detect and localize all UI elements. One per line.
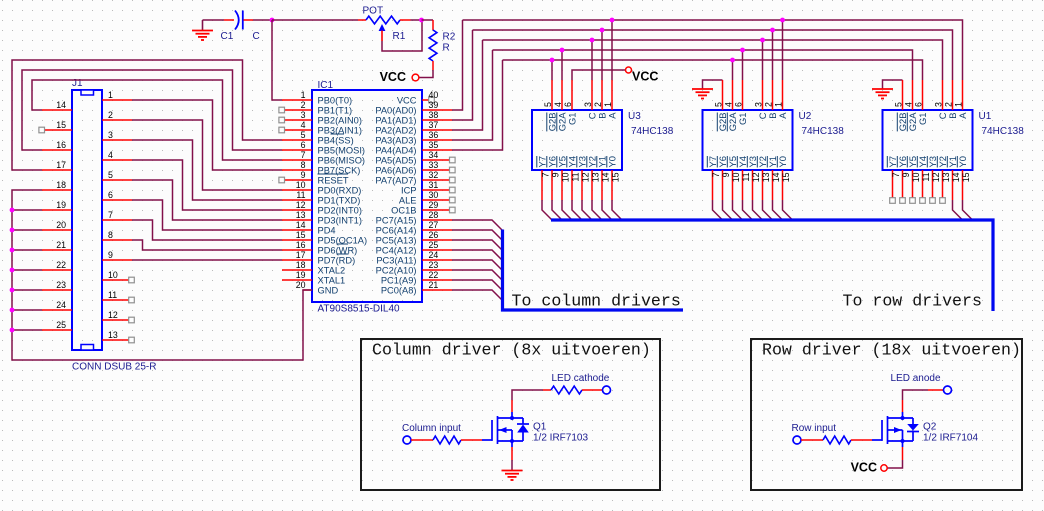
IC1 pin 27 PC6(A14)	[422, 229, 452, 231]
IC1 pin 39 PA0(AD0)	[422, 109, 452, 111]
resistor LED cathode	[543, 389, 551, 391]
svg-text:12: 12	[296, 200, 306, 210]
capacitor C1	[224, 19, 234, 21]
wire J1.5 to IC1.13	[132, 180, 282, 220]
svg-text:3: 3	[583, 102, 593, 107]
svg-text:38: 38	[429, 110, 439, 120]
J1 pin 23	[42, 289, 72, 291]
IC1 pin 10 PD0(RXD)	[282, 189, 312, 191]
power VCC terminal	[412, 74, 419, 81]
wire J1.16 to IC1.6	[22, 70, 282, 150]
U3 pin 14 Y1	[601, 170, 603, 200]
terminal LED anode	[944, 386, 952, 394]
terminal Column input	[403, 436, 411, 444]
IC1 pin 29 OC1B	[422, 209, 452, 211]
unconnected U1 output	[910, 198, 916, 204]
wire U1 output to row bus	[953, 200, 963, 220]
svg-text:15: 15	[296, 230, 306, 240]
J1 pin 25	[42, 329, 72, 331]
svg-text:1: 1	[954, 102, 964, 107]
IC1 pin 4 PB3(AIN1)	[282, 129, 312, 131]
resistor R2	[432, 20, 434, 30]
svg-text:15: 15	[781, 172, 791, 182]
svg-text:PB1(T1): PB1(T1)	[318, 106, 353, 116]
U2 pin 2 B	[772, 80, 774, 110]
svg-text:6: 6	[563, 102, 573, 107]
U1 pin 6 G1	[922, 80, 924, 110]
U1 pin 15 Y0	[962, 170, 964, 200]
svg-text:6: 6	[301, 140, 306, 150]
svg-text:16: 16	[56, 140, 66, 150]
svg-text:7: 7	[301, 150, 306, 160]
IC1 pin 34 PA5(AD5)	[422, 159, 452, 161]
U1 pin 3 C	[942, 80, 944, 110]
IC1 pin 12 PD2(INT0)	[282, 209, 312, 211]
wire 74HC138 output to row bus	[542, 200, 552, 220]
svg-text:C1: C1	[221, 31, 234, 42]
junction	[780, 18, 785, 23]
svg-text:12: 12	[108, 310, 118, 320]
terminal Row input	[793, 436, 801, 444]
wire 74HC138 output to row bus	[582, 200, 592, 220]
U3 pin 9 Y6	[551, 170, 553, 200]
J1 pin 20	[42, 229, 72, 231]
wire IC1 pin 37 to net row y=40	[452, 40, 483, 130]
ground	[202, 20, 204, 30]
svg-text:XTAL1: XTAL1	[318, 276, 346, 286]
svg-text:To row drivers: To row drivers	[843, 292, 982, 311]
svg-text:PC0(A8): PC0(A8)	[381, 286, 417, 296]
J1 pin 1	[102, 99, 132, 101]
svg-text:40: 40	[429, 90, 439, 100]
svg-text:7: 7	[711, 172, 721, 177]
svg-text:5: 5	[894, 102, 904, 107]
IC1 pin 1 PB0(T0)	[282, 99, 312, 101]
bus to column drivers	[503, 230, 684, 311]
IC1 pin 30 ALE	[422, 199, 452, 201]
J1 pin 10	[102, 279, 132, 281]
U1 pin 4 G2A	[912, 80, 914, 110]
svg-text:XTAL2: XTAL2	[318, 266, 346, 276]
svg-text:Y0: Y0	[957, 156, 968, 167]
U2 pin 11 Y4	[742, 170, 744, 200]
svg-text:9: 9	[301, 170, 306, 180]
svg-text:30: 30	[429, 190, 439, 200]
svg-text:U3: U3	[628, 111, 641, 122]
svg-text:4: 4	[301, 120, 306, 130]
svg-text:15: 15	[961, 172, 971, 182]
U1 pin 13 Y2	[942, 170, 944, 200]
unconnected U1 output	[940, 198, 946, 204]
svg-text:RESET: RESET	[318, 176, 349, 186]
J1 pin 17	[42, 169, 72, 171]
U2 pin 6 G1	[742, 80, 744, 110]
svg-text:PD0(RXD): PD0(RXD)	[318, 186, 362, 196]
U3 pin 12 Y3	[581, 170, 583, 200]
svg-text:29: 29	[429, 200, 439, 210]
svg-text:39: 39	[429, 100, 439, 110]
IC1 pin 38 PA1(AD1)	[422, 119, 452, 121]
ground	[502, 470, 523, 472]
svg-text:28: 28	[429, 210, 439, 220]
svg-text:12: 12	[580, 172, 590, 182]
IC1 pin 8 PB7(SCK)	[282, 169, 312, 171]
IC1 pin 15 PD5(OC1A)	[282, 239, 312, 241]
wire IC1 pin 38 to net row y=30	[452, 30, 473, 120]
svg-text:74HC138: 74HC138	[802, 126, 845, 137]
power VCC terminal	[626, 67, 632, 73]
svg-text:23: 23	[429, 260, 439, 270]
svg-text:36: 36	[429, 130, 439, 140]
svg-text:1: 1	[108, 90, 113, 100]
svg-text:8: 8	[301, 160, 306, 170]
U2 pin 7 Y7	[712, 170, 714, 200]
net wire A row	[463, 20, 963, 80]
svg-text:14: 14	[296, 220, 306, 230]
U1 pin 9 Y6	[902, 170, 904, 200]
U2 pin 1 A	[782, 80, 784, 110]
junction node	[270, 18, 275, 23]
svg-text:6: 6	[108, 190, 113, 200]
U3 pin 11 Y4	[571, 170, 573, 200]
U1 pin 7 Y7	[892, 170, 894, 200]
svg-text:VCC: VCC	[851, 461, 877, 475]
wire J1.2 to IC1.10	[132, 120, 282, 190]
svg-text:7: 7	[891, 172, 901, 177]
svg-text:1/2 IRF7104: 1/2 IRF7104	[923, 433, 978, 444]
svg-text:11: 11	[108, 290, 117, 300]
IC1 pin 22 PC1(A9)	[422, 279, 452, 281]
svg-text:PC7(A15): PC7(A15)	[376, 216, 417, 226]
wire J1.4 to IC1.12	[132, 160, 282, 210]
J1 pin 7	[102, 219, 132, 221]
wire 74HC138 output to row bus	[743, 200, 753, 220]
wire 74HC138 output to row bus	[713, 200, 723, 220]
IC1 pin 11 PD1(TXD)	[282, 199, 312, 201]
wire 74HC138 output to row bus	[562, 200, 572, 220]
IC1 pin 23 PC2(A10)	[422, 269, 452, 271]
svg-text:7: 7	[540, 172, 550, 177]
wire J1.23 to bus	[12, 289, 42, 291]
J1 pin 15	[42, 129, 72, 131]
svg-text:13: 13	[761, 172, 771, 182]
svg-text:12: 12	[751, 172, 761, 182]
svg-text:6: 6	[914, 102, 924, 107]
svg-text:PC5(A13): PC5(A13)	[376, 236, 417, 246]
junction	[10, 308, 15, 313]
U3 pin 5 G2B	[551, 80, 553, 110]
svg-text:PB0(T0): PB0(T0)	[318, 96, 353, 106]
svg-text:13: 13	[296, 210, 306, 220]
svg-text:PB4(SS): PB4(SS)	[318, 136, 354, 146]
IC1 pin 3 PB2(AIN0)	[282, 119, 312, 121]
junction	[10, 328, 15, 333]
J1 pin 19	[42, 209, 72, 211]
svg-text:10: 10	[296, 180, 306, 190]
svg-text:4: 4	[904, 102, 914, 107]
wire drop to U3	[561, 50, 563, 80]
svg-text:14: 14	[600, 172, 610, 182]
wire 74HC138 output to row bus	[602, 200, 612, 220]
wire J1.8 to IC1.16	[132, 240, 282, 250]
svg-text:U1: U1	[979, 111, 992, 122]
wire drop to U2	[732, 60, 734, 80]
ground for U1 G2B	[883, 80, 903, 89]
svg-text:CONN DSUB 25-R: CONN DSUB 25-R	[72, 362, 156, 373]
wire drop to U2	[782, 20, 784, 80]
U3 pin 1 A	[611, 80, 613, 110]
net wire G1 row	[493, 50, 913, 80]
U2 pin 5 G2B	[722, 80, 724, 110]
svg-text:OC1B: OC1B	[391, 206, 416, 216]
svg-text:14: 14	[951, 172, 961, 182]
J1 pin 18	[42, 189, 72, 191]
wire IC1 pin 36 to net row y=50	[452, 50, 493, 140]
svg-text:R1: R1	[393, 31, 406, 42]
svg-text:13: 13	[941, 172, 951, 182]
IC1 pin 36 PA3(AD3)	[422, 139, 452, 141]
svg-text:1/2 IRF7103: 1/2 IRF7103	[533, 433, 588, 444]
svg-text:PA3(AD3): PA3(AD3)	[375, 136, 416, 146]
svg-text:13: 13	[590, 172, 600, 182]
resistor column input	[411, 439, 433, 441]
wire IC1 pin 25 to column bus	[452, 250, 503, 261]
wire 74HC138 output to row bus	[733, 200, 743, 220]
svg-text:R2: R2	[443, 32, 456, 43]
svg-text:10: 10	[108, 270, 118, 280]
wire 74HC138 output to row bus	[572, 200, 582, 220]
IC1 pin 6 PB5(MOSI)	[282, 149, 312, 151]
U3 pin 4 G2A	[561, 80, 563, 110]
wire R2 to VCC	[420, 70, 434, 78]
svg-text:G1: G1	[737, 113, 748, 126]
wire drop to U3	[551, 60, 553, 80]
IC1 pin 31 ICP	[422, 189, 452, 191]
svg-text:Y0: Y0	[606, 156, 617, 167]
svg-text:20: 20	[296, 280, 306, 290]
svg-text:1: 1	[774, 102, 784, 107]
J1 pin 21	[42, 249, 72, 251]
wire J1.22 to bus	[12, 269, 42, 271]
U2 pin 9 Y6	[722, 170, 724, 200]
IC1 pin 9 RESET	[282, 179, 312, 181]
IC1 pin 16 PD6(WR)	[282, 249, 312, 251]
U2 pin 13 Y2	[762, 170, 764, 200]
U1 pin 11 Y4	[922, 170, 924, 200]
net wire B row	[473, 30, 953, 80]
wire 74HC138 output to row bus	[612, 200, 622, 220]
wire IC1 pin 22 to column bus	[452, 280, 503, 291]
IC1 pin 26 PC5(A13)	[422, 239, 452, 241]
IC1 pin 24 PC3(A11)	[422, 259, 452, 261]
svg-text:To column drivers: To column drivers	[512, 292, 681, 311]
U1 pin 14 Y1	[952, 170, 954, 200]
wire ground to C1	[203, 19, 225, 21]
svg-text:16: 16	[296, 240, 306, 250]
svg-text:5: 5	[301, 130, 306, 140]
svg-text:32: 32	[429, 170, 439, 180]
net wire C row	[483, 40, 943, 80]
junction POT R2	[419, 18, 424, 23]
U2 pin 15 Y0	[782, 170, 784, 200]
wire J1.19 to bus	[12, 209, 42, 211]
svg-text:34: 34	[429, 150, 439, 160]
IC1 pin 13 PD3(INT1)	[282, 219, 312, 221]
svg-text:PB6(MISO): PB6(MISO)	[318, 156, 366, 166]
wire J1.14 to IC1.7	[32, 80, 282, 160]
svg-text:Column input: Column input	[402, 423, 461, 434]
unconnected U1 output	[900, 198, 906, 204]
wire J1.21 to bus	[12, 249, 42, 251]
svg-text:22: 22	[56, 260, 66, 270]
junction	[560, 48, 565, 53]
wire J1.9 to IC1.17	[132, 259, 282, 261]
wire drop to U2	[762, 40, 764, 80]
svg-text:PD3(INT1): PD3(INT1)	[318, 216, 362, 226]
svg-text:21: 21	[56, 240, 66, 250]
U3 pin 7 Y7	[541, 170, 543, 200]
body diode Q2	[912, 418, 914, 424]
J1 pin 6	[102, 199, 132, 201]
wire J1.1 to IC1.8	[132, 100, 282, 170]
svg-text:ICP: ICP	[401, 186, 417, 196]
svg-text:PA0(AD0): PA0(AD0)	[375, 106, 416, 116]
svg-text:GND: GND	[318, 286, 339, 296]
svg-text:AT90S8515-DIL40: AT90S8515-DIL40	[318, 304, 401, 315]
wire 74HC138 output to row bus	[592, 200, 602, 220]
svg-text:12: 12	[931, 172, 941, 182]
J1 pin 9	[102, 259, 132, 261]
wire R1 wiper loop	[382, 21, 422, 51]
IC1 pin 2 PB1(T1)	[282, 109, 312, 111]
svg-text:PB2(AIN0): PB2(AIN0)	[318, 116, 362, 126]
svg-text:7: 7	[108, 210, 113, 220]
svg-text:PD2(INT0): PD2(INT0)	[318, 206, 362, 216]
wire drop to U3	[611, 20, 613, 80]
row driver detail box	[751, 339, 1022, 490]
wire J1.7 to IC1.15	[132, 220, 282, 240]
unconnected U1 output	[920, 198, 926, 204]
ground for U2 G2B	[703, 80, 723, 89]
U3 pin 2 B	[601, 80, 603, 110]
junction	[10, 248, 15, 253]
junction	[10, 268, 15, 273]
IC1 pin 14 PD4	[282, 229, 312, 231]
svg-text:PA1(AD1): PA1(AD1)	[375, 116, 416, 126]
svg-text:11: 11	[296, 190, 305, 200]
junction	[730, 58, 735, 63]
svg-text:25: 25	[429, 240, 439, 250]
wire J1.25 to bus	[12, 329, 42, 331]
svg-text:IC1: IC1	[318, 80, 334, 91]
wire drop to U2	[742, 50, 744, 80]
wire IC1 pin 28 to column bus	[452, 220, 503, 231]
svg-text:A: A	[606, 112, 617, 119]
svg-text:37: 37	[429, 120, 439, 130]
svg-text:LED anode: LED anode	[891, 373, 941, 384]
wire IC1 pin 27 to column bus	[452, 230, 503, 241]
wire U1 output to row bus	[963, 200, 973, 220]
wire IC1 pin 21 to column bus	[452, 290, 503, 301]
svg-text:PD4: PD4	[318, 226, 336, 236]
svg-text:Column driver (8x uitvoeren): Column driver (8x uitvoeren)	[372, 340, 651, 359]
svg-text:26: 26	[429, 230, 439, 240]
svg-text:11: 11	[921, 172, 931, 181]
junction	[590, 38, 595, 43]
svg-text:PD7(RD): PD7(RD)	[318, 256, 356, 266]
IC1 pin 5 PB4(SS)	[282, 139, 312, 141]
svg-text:21: 21	[429, 280, 439, 290]
svg-text:VCC: VCC	[632, 70, 658, 84]
svg-text:PC2(A10): PC2(A10)	[376, 266, 417, 276]
svg-text:3: 3	[301, 110, 306, 120]
svg-text:G1: G1	[917, 113, 928, 126]
wire U3 G1 to VCC	[572, 70, 626, 80]
svg-text:20: 20	[56, 220, 66, 230]
svg-text:14: 14	[56, 100, 66, 110]
J1 pin 2	[102, 119, 132, 121]
wire J1.24 to bus	[12, 309, 42, 311]
potentiometer R1 POT	[358, 19, 366, 21]
svg-text:4: 4	[724, 102, 734, 107]
wire drop to U3	[601, 30, 603, 80]
wire IC1 pin 39 to net row y=20	[452, 20, 463, 110]
svg-text:9: 9	[901, 172, 911, 177]
svg-text:35: 35	[429, 140, 439, 150]
bus to row drivers	[551, 220, 993, 311]
resistor row input	[801, 439, 823, 441]
svg-text:VCC: VCC	[380, 70, 406, 84]
IC U3 74HC138 body	[532, 110, 622, 170]
wire 74HC138 output to row bus	[552, 200, 562, 220]
J1 pin 8	[102, 239, 132, 241]
wire Q2 source to VCC	[902, 441, 904, 447]
J1 pin 14	[42, 109, 72, 111]
J1 pin 3	[102, 139, 132, 141]
IC1 pin 17 PD7(RD)	[282, 259, 312, 261]
svg-text:4: 4	[553, 102, 563, 107]
svg-text:14: 14	[771, 172, 781, 182]
svg-text:1: 1	[603, 102, 613, 107]
column driver detail box	[361, 339, 660, 490]
U1 pin 5 G2B	[902, 80, 904, 110]
net wire G2A row	[503, 60, 923, 80]
svg-text:POT: POT	[363, 6, 384, 17]
power VCC terminal	[881, 465, 887, 471]
IC1 pin 37 PA2(AD2)	[422, 129, 452, 131]
svg-text:3: 3	[934, 102, 944, 107]
wire 74HC138 output to row bus	[723, 200, 733, 220]
svg-text:10: 10	[911, 172, 921, 182]
svg-text:A: A	[777, 112, 788, 119]
wire 74HC138 output to row bus	[763, 200, 773, 220]
svg-text:G1: G1	[566, 113, 577, 126]
unconnected U1 output	[930, 198, 936, 204]
wire J1.6 to IC1.14	[132, 200, 282, 230]
J1 pin 5	[102, 179, 132, 181]
terminal LED cathode	[603, 386, 611, 394]
wire Q1 source to ground	[511, 441, 513, 447]
IC1 pin 32 PA7(AD7)	[422, 179, 452, 181]
svg-text:15: 15	[610, 172, 620, 182]
svg-text:5: 5	[543, 102, 553, 107]
connector J1 CONN DSUB 25-R	[72, 90, 102, 350]
J1 pin 4	[102, 159, 132, 161]
junction	[600, 28, 605, 33]
svg-text:VCC: VCC	[397, 96, 417, 106]
IC1 pin 20 GND	[303, 289, 313, 291]
U1 pin 10 Y5	[912, 170, 914, 200]
